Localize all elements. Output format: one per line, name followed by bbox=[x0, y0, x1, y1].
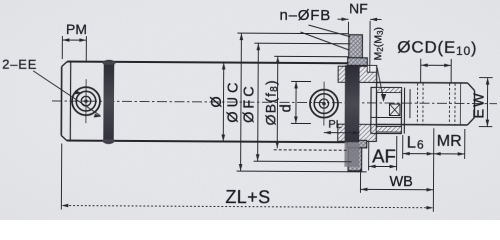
svg-text:AF: AF bbox=[372, 145, 396, 166]
svg-text:2–EE: 2–EE bbox=[2, 57, 37, 72]
svg-text:MR: MR bbox=[437, 133, 462, 150]
svg-text:WB: WB bbox=[389, 174, 412, 190]
svg-text:ZL+S: ZL+S bbox=[225, 187, 270, 207]
svg-text:d: d bbox=[278, 104, 294, 112]
svg-text:EW: EW bbox=[471, 91, 487, 118]
svg-text:Ø: Ø bbox=[209, 96, 225, 107]
svg-text:PL: PL bbox=[328, 119, 342, 131]
svg-text:ØUC: ØUC bbox=[225, 78, 241, 122]
svg-text:NF: NF bbox=[349, 0, 368, 16]
svg-text:n–ØFB: n–ØFB bbox=[279, 7, 331, 24]
svg-text:PM: PM bbox=[66, 21, 87, 37]
svg-text:ØFC: ØFC bbox=[241, 83, 257, 123]
